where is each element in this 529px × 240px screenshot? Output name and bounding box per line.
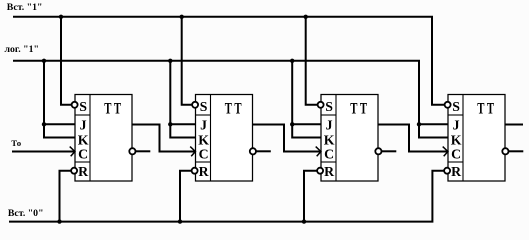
svg-text:S: S: [325, 99, 333, 114]
junction on J branch of flip-flop 1: [42, 122, 46, 126]
dynamic clock input wedge on C of U4: [443, 147, 448, 157]
svg-text:K: K: [324, 132, 335, 147]
net log."1" label: [5, 44, 39, 55]
svg-text:K: K: [198, 132, 209, 147]
inverted output bubble of U2: [250, 148, 256, 154]
flip-flop U1 body outline with pin field divider: [75, 95, 132, 182]
junction on log rail to J input of flip-flop 4: [417, 122, 421, 126]
svg-text:S: S: [79, 99, 87, 114]
pin K label of U2: [198, 132, 209, 147]
junction log."1" rail branch for flip-flop 2: [168, 59, 172, 63]
svg-text:T: T: [104, 101, 111, 118]
wire Vst."1" to S input of flip-flop 3: [306, 17, 318, 105]
inverted output stub of U4: [509, 150, 524, 152]
svg-text:T: T: [477, 101, 484, 118]
junction log."1" rail branch for flip-flop 3: [290, 59, 294, 63]
flip-flop U2 label TT: [225, 101, 242, 118]
inversion bubble on R input of U1: [71, 168, 77, 174]
wire log."1" rail with corner down to J,K inputs of flip-flop 4: [13, 61, 448, 138]
pin R label of U1: [78, 164, 89, 179]
svg-text:J: J: [200, 117, 207, 132]
wire Vst."0" to R input of flip-flop 3: [304, 171, 317, 222]
svg-text:Вст. "0": Вст. "0": [8, 208, 44, 219]
wire log."1" to J and K inputs of flip-flop 2: [170, 61, 195, 138]
wire To clock input to C of flip-flop 1: [12, 151, 74, 153]
pin K label of U3: [324, 132, 335, 147]
pin C label of U2: [199, 146, 209, 161]
junction log."1" rail branch for flip-flop 1: [42, 59, 46, 63]
wire Vst."1" to S input of flip-flop 1: [61, 17, 72, 105]
svg-text:T: T: [350, 101, 357, 118]
svg-text:C: C: [451, 146, 461, 161]
net Vst."0" label: [8, 208, 44, 219]
svg-text:J: J: [80, 117, 87, 132]
svg-text:J: J: [453, 117, 460, 132]
junction Vst."1" rail branch for flip-flop 1: [59, 15, 63, 19]
pin R label of U4: [451, 164, 462, 179]
svg-text:T: T: [114, 101, 121, 118]
wire Q output of U1 to clock C of U2: [132, 125, 195, 152]
wire Vst."0" to R input of flip-flop 1: [60, 171, 72, 222]
wire log."1" to J and K inputs of flip-flop 1: [44, 61, 75, 138]
wire Q output of U2 to clock C of U3: [253, 125, 321, 152]
svg-text:R: R: [324, 164, 335, 179]
wire Vst."1" rail with corner down to S input of flip-flop 4: [13, 17, 445, 105]
net Vst."1" label: [7, 2, 43, 13]
inversion bubble on R input of U2: [192, 168, 198, 174]
net To clock label: [11, 138, 21, 148]
flip-flop U4 label TT: [477, 101, 494, 118]
pin J label of U4: [453, 117, 460, 132]
inversion bubble on S input of U2: [192, 102, 198, 108]
svg-text:C: C: [324, 146, 334, 161]
svg-text:Вст. "1": Вст. "1": [7, 2, 43, 13]
pin S label of U4: [452, 99, 460, 114]
wire Vst."0" to R input of flip-flop 2: [180, 171, 192, 222]
dynamic clock input wedge on C of U1: [70, 147, 75, 157]
pin S label of U3: [325, 99, 333, 114]
pin C label of U1: [78, 146, 88, 161]
svg-text:K: K: [451, 132, 462, 147]
svg-text:T: T: [234, 101, 241, 118]
dynamic clock input wedge on C of U2: [190, 147, 195, 157]
junction Vst."0" rail branch for flip-flop 2: [178, 219, 182, 223]
junction Vst."0" rail branch for flip-flop 3: [302, 219, 306, 223]
pin J label of U1: [80, 117, 87, 132]
inversion bubble on R input of U3: [317, 168, 323, 174]
svg-text:R: R: [451, 164, 462, 179]
pin S label of U2: [200, 99, 208, 114]
svg-text:T: T: [360, 101, 367, 118]
inverted output bubble of U4: [502, 148, 508, 154]
svg-text:C: C: [199, 146, 209, 161]
svg-text:лог. "1": лог. "1": [5, 44, 39, 55]
wire Vst."0" rail with corner up to R input of flip-flop 4: [9, 171, 444, 222]
inversion bubble on R input of U4: [444, 168, 450, 174]
svg-text:K: K: [78, 132, 89, 147]
svg-text:T: T: [487, 101, 494, 118]
pin C label of U4: [451, 146, 461, 161]
inversion bubble on S input of U1: [72, 102, 78, 108]
junction Vst."1" rail branch for flip-flop 3: [304, 15, 308, 19]
dynamic clock input wedge on C of U3: [316, 147, 321, 157]
wire Q output of U3 to clock C of U4: [378, 125, 447, 152]
svg-text:То: То: [11, 138, 21, 148]
pin J label of U3: [326, 117, 333, 132]
pin J label of U2: [200, 117, 207, 132]
svg-text:S: S: [452, 99, 460, 114]
wire Q output stub of U4: [505, 124, 523, 126]
flip-flop U3 body outline with pin field divider: [321, 95, 378, 182]
inversion bubble on S input of U4: [445, 102, 451, 108]
inverted output stub of U3: [382, 150, 397, 152]
junction on J branch of flip-flop 2: [168, 122, 172, 126]
flip-flop U4 body outline with pin field divider: [448, 95, 505, 182]
inverted output bubble of U3: [375, 148, 381, 154]
pin R label of U2: [199, 164, 210, 179]
junction Vst."0" rail branch for flip-flop 1: [57, 219, 61, 223]
wire Vst."1" to S input of flip-flop 2: [182, 17, 192, 105]
inversion bubble on S input of U3: [318, 102, 324, 108]
svg-text:R: R: [199, 164, 210, 179]
junction on J branch of flip-flop 3: [290, 122, 294, 126]
pin R label of U3: [324, 164, 335, 179]
svg-text:S: S: [200, 99, 208, 114]
flip-flop U2 body outline with pin field divider: [196, 95, 253, 182]
inverted output bubble of U1: [129, 148, 135, 154]
pin C label of U3: [324, 146, 334, 161]
pin K label of U1: [78, 132, 89, 147]
svg-text:T: T: [225, 101, 232, 118]
inverted output stub of U1: [136, 150, 151, 152]
inverted output stub of U2: [256, 150, 271, 152]
flip-flop U3 label TT: [350, 101, 367, 118]
pin K label of U4: [451, 132, 462, 147]
svg-text:R: R: [78, 164, 89, 179]
wire log."1" to J and K inputs of flip-flop 3: [292, 61, 321, 138]
svg-text:J: J: [326, 117, 333, 132]
junction Vst."1" rail branch for flip-flop 2: [180, 15, 184, 19]
pin S label of U1: [79, 99, 87, 114]
flip-flop U1 label TT: [104, 101, 121, 118]
svg-text:C: C: [78, 146, 88, 161]
